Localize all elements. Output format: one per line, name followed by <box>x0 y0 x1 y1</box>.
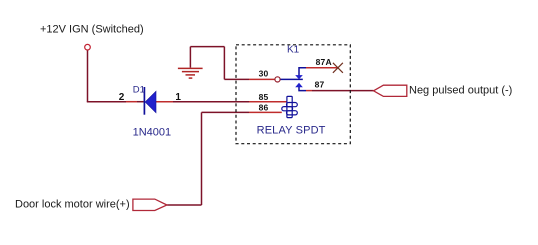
svg-text:87A: 87A <box>316 57 332 67</box>
svg-text:1: 1 <box>175 92 181 103</box>
svg-text:30: 30 <box>259 69 269 79</box>
svg-text:2: 2 <box>119 92 125 103</box>
svg-text:85: 85 <box>259 92 269 102</box>
svg-text:Door lock motor wire(+): Door lock motor wire(+) <box>15 198 130 210</box>
svg-text:+12V IGN (Switched): +12V IGN (Switched) <box>40 24 144 36</box>
svg-text:D1: D1 <box>133 84 145 95</box>
svg-text:1N4001: 1N4001 <box>133 127 172 139</box>
svg-text:Neg pulsed output (-): Neg pulsed output (-) <box>409 85 512 97</box>
svg-text:86: 86 <box>259 102 269 112</box>
svg-text:RELAY SPDT: RELAY SPDT <box>257 125 326 137</box>
svg-text:K1: K1 <box>287 44 300 55</box>
svg-text:87: 87 <box>315 79 325 89</box>
